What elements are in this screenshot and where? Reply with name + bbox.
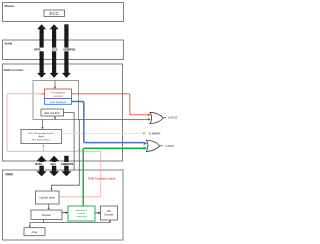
svg-text:Master: Master: [5, 4, 16, 8]
svg-text:RAM Timebase signal: RAM Timebase signal: [88, 176, 116, 180]
gray wire: container to RAS gate lower input: [79, 118, 150, 120]
ECC recalculation box: [21, 130, 62, 144]
wire container top to transaction monitor: [54, 81, 56, 90]
ECC bus arrow (Master-Controller, double headed): [50, 24, 59, 78]
svg-text:to RCG2: to RCG2: [168, 117, 178, 120]
RAM box: [3, 170, 124, 240]
salmon timebase loop wire: [7, 94, 101, 197]
svg-text:ECC: Recalculation Data &: ECC: Recalculation Data &: [29, 132, 55, 135]
yellow wire: ECC recalculation to MEMRF: [62, 132, 145, 134]
gray wire: EDC box to RAM top: [64, 113, 75, 170]
OR gate U2 (RAS): [150, 112, 178, 123]
svg-text:encode: encode: [78, 213, 86, 215]
green wire: RAM comparator to CAS gate: [83, 148, 145, 206]
DATA bus arrow (Controller-RAM, double headed): [37, 156, 47, 177]
container box (controller core): [33, 81, 79, 120]
svg-text:to FSCK: to FSCK: [165, 145, 174, 148]
wire container bottom up into EDC box: [54, 116, 56, 120]
wire comparator to ref encoder: [95, 212, 101, 214]
ADDRESS bus arrow (Controller-RAM, down only): [61, 156, 71, 177]
EDC and ECC box: [41, 109, 64, 116]
svg-text:RAM: RAM: [6, 173, 14, 177]
svg-text:Encoder: Encoder: [105, 214, 114, 217]
Array box: [24, 228, 45, 236]
ECC bus arrow (Controller-RAM, double headed): [49, 156, 59, 177]
Master box: [3, 3, 124, 22]
Decoder box: [31, 210, 62, 220]
Latched signal box: [36, 191, 60, 204]
red wire: salmon stub into transaction monitor left: [7, 93, 44, 95]
wire decoder to comparator: [62, 211, 68, 213]
bus labels (ISAM band): [33, 48, 76, 52]
ISAM bus box: [3, 40, 124, 60]
ADDRESS bus arrow (Master-Controller, down only): [62, 24, 71, 78]
wire decoder bottom to array and ref encoder: [30, 220, 110, 227]
svg-text:ISAM: ISAM: [5, 42, 13, 46]
blue wire: auto feedback to CAS gate: [72, 102, 146, 143]
wire latched signal to decoder: [48, 204, 50, 210]
auto feedback box (blue): [45, 99, 72, 105]
gray wire: container corner down to Latched signal box: [52, 120, 80, 190]
svg-text:EDC and ECC: EDC and ECC: [44, 112, 60, 115]
svg-text:To MEMRF: To MEMRF: [149, 132, 161, 135]
svg-text:RAM Controller: RAM Controller: [4, 68, 24, 72]
svg-text:DATA: DATA: [34, 49, 41, 52]
svg-text:Array: Array: [32, 231, 39, 234]
svg-text:(For Partial Writes): (For Partial Writes): [32, 138, 50, 141]
svg-text:Auto Addr &: Auto Addr &: [76, 209, 88, 212]
svg-text:ADDRESS: ADDRESS: [63, 49, 76, 52]
DATA bus arrow (Master-Controller, double headed): [37, 24, 46, 78]
transaction monitor box (red): [45, 89, 72, 99]
svg-text:ADDRESS: ADDRESS: [61, 163, 74, 166]
svg-text:DATA.: DATA.: [35, 163, 43, 166]
svg-text:monitor: monitor: [53, 94, 62, 98]
Auto Addr comparator box (green): [68, 206, 95, 221]
svg-text:Auto feedback: Auto feedback: [50, 100, 67, 104]
svg-text:ECC: ECC: [52, 49, 57, 52]
svg-text:ECC: ECC: [50, 11, 59, 16]
svg-text:comparator: comparator: [76, 215, 87, 218]
ECC box U1: [44, 10, 65, 17]
OR gate U3 (CAS): [146, 140, 174, 151]
svg-text:ECC: ECC: [51, 163, 56, 166]
salmon branch arrow into ECC recalculation box bottom: [42, 144, 45, 151]
Ref Encoder box: [101, 206, 118, 220]
svg-text:Decoder: Decoder: [42, 214, 51, 217]
wire container bottom down to ECC recalculation box: [41, 120, 43, 130]
red wire: transaction monitor to RAS gate: [72, 94, 150, 115]
svg-text:Latched signal: Latched signal: [39, 197, 55, 200]
bus labels (Controller-RAM gap): [35, 162, 75, 166]
RAM Controller box: [3, 64, 123, 161]
